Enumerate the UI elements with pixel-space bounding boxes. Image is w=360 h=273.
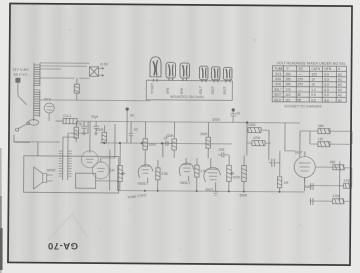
svg-text:1M: 1M <box>110 168 115 172</box>
svg-text:MOUNTED ON CHAS.: MOUNTED ON CHAS. <box>170 95 205 99</box>
svg-text:1M: 1M <box>284 181 289 185</box>
power tube V2 circle <box>81 151 98 168</box>
svg-text:6.3: 6.3 <box>324 78 329 82</box>
B+ rail <box>77 121 300 123</box>
table cell entries <box>274 67 343 103</box>
faint scan streak shadows <box>18 8 328 258</box>
plate resistor R6 <box>143 122 157 158</box>
svg-text:HTR: HTR <box>324 67 331 71</box>
tube outline V1 <box>150 57 161 82</box>
tube socket labels <box>150 83 227 94</box>
grid resistor R8 <box>166 122 177 158</box>
input resistor R19 <box>340 179 353 189</box>
cathode resistor R7 <box>156 160 169 191</box>
svg-text:1.2: 1.2 <box>311 88 316 92</box>
dark scanner edge left <box>0 148 2 273</box>
choke CH1 <box>56 114 78 124</box>
svg-text:GA-70: GA-70 <box>48 240 78 251</box>
svg-text:68K: 68K <box>330 160 337 164</box>
svg-text:2.5K: 2.5K <box>161 172 169 176</box>
svg-text:6SJ7: 6SJ7 <box>295 150 303 154</box>
svg-text:6SJ7: 6SJ7 <box>274 93 282 97</box>
svg-text:.02: .02 <box>133 128 138 132</box>
transformer T1 primary <box>34 63 40 121</box>
svg-text:6SJ7: 6SJ7 <box>223 86 227 94</box>
svg-text:AC: AC <box>338 88 343 92</box>
wire to preamp <box>285 123 295 151</box>
tube layout chassis box <box>146 80 232 100</box>
voltage chart table <box>272 66 346 103</box>
svg-text:100K: 100K <box>248 123 257 127</box>
svg-text:220K: 220K <box>166 134 175 138</box>
wire riser mid <box>110 143 305 192</box>
node dot D <box>119 142 121 144</box>
svg-text:250K: 250K <box>200 132 209 136</box>
tone pot R11 <box>227 155 242 192</box>
tube outline V6b <box>223 67 232 82</box>
feedback wire <box>96 181 118 191</box>
svg-text:6.3: 6.3 <box>324 88 329 92</box>
svg-text:6SL7: 6SL7 <box>274 88 282 92</box>
volume pot R5 <box>110 143 126 191</box>
speaker SP1 <box>34 167 57 189</box>
triode V4b <box>179 158 194 185</box>
svg-text:5Y3: 5Y3 <box>275 72 281 76</box>
svg-text:6V6: 6V6 <box>275 82 281 86</box>
svg-text:470K: 470K <box>253 136 262 140</box>
pentode V5 <box>204 158 221 192</box>
wire riser <box>247 123 269 161</box>
svg-text:CATH: CATH <box>311 67 320 71</box>
coupling cap C4 <box>128 122 137 144</box>
grid resistor R14 <box>247 136 271 146</box>
crease artifact <box>48 214 88 240</box>
transformer T1 secondary <box>34 90 40 115</box>
mid coupling bus <box>100 143 232 144</box>
scan speckles <box>40 22 331 251</box>
svg-text:AC: AC <box>338 73 343 77</box>
tube outline V5 <box>211 67 220 83</box>
resistor R4 <box>96 125 107 143</box>
filter cap C1 <box>78 121 87 135</box>
node dot C <box>103 142 105 144</box>
jack wire <box>310 168 352 186</box>
bias resistor R21 <box>74 121 79 142</box>
svg-text:500K: 500K <box>240 193 249 197</box>
grid stopper R18 <box>330 160 345 170</box>
svg-text:500K: 500K <box>233 175 242 179</box>
secondary terminal box <box>76 173 96 188</box>
svg-text:SC: SC <box>298 67 303 71</box>
svg-text:68K: 68K <box>318 124 325 128</box>
heater return wire <box>40 99 150 102</box>
input cap C8 <box>304 183 313 205</box>
preamp tube V5b circle <box>294 150 315 182</box>
svg-text:SOCKET TO CHASSIS: SOCKET TO CHASSIS <box>284 104 322 108</box>
svg-text:P: P <box>286 67 288 71</box>
svg-text:55: 55 <box>297 93 301 97</box>
pilot lamp <box>89 62 108 76</box>
svg-text:100K: 100K <box>96 128 105 132</box>
ground stub G1 <box>104 143 120 191</box>
switch SW1 <box>14 119 60 156</box>
heater wires <box>40 63 90 78</box>
svg-text:.005: .005 <box>218 148 225 152</box>
svg-text:19: 19 <box>311 83 315 87</box>
junction dots on ground <box>144 190 281 193</box>
hum balance R2 <box>74 78 79 100</box>
rectifier V6 5Y3 <box>44 97 54 121</box>
svg-text:AC: AC <box>338 93 343 97</box>
node dot E <box>141 142 143 144</box>
svg-text:350: 350 <box>285 72 291 76</box>
resistor R15 <box>277 177 288 192</box>
screen resistor R10 <box>200 122 211 158</box>
svg-text:6.3: 6.3 <box>324 83 329 87</box>
tone cap C6 <box>218 148 229 158</box>
svg-text:½6SL7: ½6SL7 <box>180 181 191 185</box>
svg-text:0.9: 0.9 <box>311 98 316 102</box>
svg-text:170: 170 <box>285 88 291 92</box>
svg-text:270: 270 <box>297 83 303 87</box>
svg-text:285: 285 <box>285 77 291 81</box>
svg-text:SPKR: SPKR <box>47 168 56 172</box>
svg-text:6.3: 6.3 <box>324 93 329 97</box>
ground bus <box>118 191 305 192</box>
screen R17 <box>310 137 352 147</box>
node dot A <box>126 107 129 110</box>
dropping wire <box>126 109 128 143</box>
wire risers right <box>300 131 352 157</box>
node dot B <box>246 121 248 123</box>
svg-text:20: 20 <box>78 122 82 126</box>
svg-text:470K: 470K <box>333 194 342 198</box>
svg-text:6SL7: 6SL7 <box>199 86 203 94</box>
svg-text:VOLT READINGS TAKEN UNDER NO S: VOLT READINGS TAKEN UNDER NO SIG. <box>277 61 347 66</box>
output transformer T2 <box>59 149 72 180</box>
tone pot R12 <box>240 155 249 197</box>
svg-text:6SJ7: 6SJ7 <box>211 86 215 94</box>
AC line label <box>12 67 29 77</box>
speaker output box <box>24 156 119 193</box>
svg-text:110: 110 <box>285 93 290 97</box>
svg-text:285: 285 <box>285 83 291 87</box>
svg-text:0.9: 0.9 <box>311 93 316 97</box>
svg-text:100K: 100K <box>148 143 157 147</box>
node dot F <box>161 142 163 144</box>
svg-text:20μf: 20μf <box>91 115 98 119</box>
plate load R16 <box>300 124 352 134</box>
svg-text:AC: AC <box>338 99 343 103</box>
cathode network R9 <box>195 158 208 191</box>
svg-text:20: 20 <box>236 111 240 115</box>
svg-text:6V6: 6V6 <box>180 88 184 94</box>
svg-text:55: 55 <box>297 98 301 102</box>
svg-text:1M: 1M <box>318 137 323 141</box>
OT primary to rail wire <box>63 121 88 149</box>
input resistor R20 <box>309 194 351 204</box>
svg-text:300V: 300V <box>212 118 221 122</box>
svg-text:5.0: 5.0 <box>324 72 329 76</box>
svg-text:5Y3GT: 5Y3GT <box>150 83 154 94</box>
svg-text:AC: AC <box>338 78 343 82</box>
svg-text:½6SL7: ½6SL7 <box>138 182 149 186</box>
svg-text:CH-1: CH-1 <box>63 114 71 118</box>
svg-text:270: 270 <box>297 77 303 81</box>
fuse F1 <box>16 122 30 131</box>
svg-text:60 CYC.: 60 CYC. <box>13 72 28 77</box>
svg-text:325: 325 <box>311 72 317 76</box>
svg-text:6V6: 6V6 <box>166 88 170 94</box>
ground symbol main <box>213 188 219 195</box>
tube outline V4 <box>199 66 208 82</box>
power plug <box>15 78 27 105</box>
svg-text:6.3: 6.3 <box>324 98 329 102</box>
svg-text:TUBE: TUBE <box>274 67 283 71</box>
power tube V3 circle <box>92 162 109 179</box>
svg-text:110: 110 <box>285 98 290 102</box>
svg-text:AC: AC <box>338 83 343 87</box>
svg-text:6SJ7: 6SJ7 <box>274 98 282 102</box>
decoupling cap C3 <box>230 108 240 122</box>
plate resistor R13 <box>247 123 269 133</box>
svg-text:6.3V: 6.3V <box>101 62 109 66</box>
input grid network wire <box>315 161 339 201</box>
triode V4a <box>138 158 153 186</box>
svg-text:470K: 470K <box>344 179 353 183</box>
coupling caps C7 <box>269 151 281 176</box>
svg-text:5Y3: 5Y3 <box>44 97 50 101</box>
screen resistor R3 <box>130 114 135 118</box>
tube outline V3 <box>180 63 190 81</box>
coupling cap C5 <box>162 136 173 146</box>
tube outline V2 <box>166 62 176 81</box>
svg-text:19: 19 <box>311 78 315 82</box>
power tube internals <box>86 159 105 171</box>
svg-text:6V6: 6V6 <box>275 77 281 81</box>
input stage wire left <box>14 141 30 143</box>
plate wires <box>90 121 115 162</box>
filter cap C2 <box>91 115 99 135</box>
